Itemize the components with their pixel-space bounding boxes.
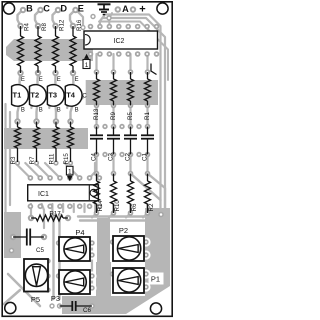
svg-text:T1: T1 — [13, 91, 22, 100]
svg-text:R13: R13 — [93, 108, 100, 120]
svg-text:R17: R17 — [49, 211, 61, 218]
svg-text:C4: C4 — [91, 153, 98, 161]
svg-text:R11: R11 — [49, 153, 56, 164]
svg-text:P2: P2 — [119, 226, 128, 235]
svg-text:C6: C6 — [83, 307, 91, 314]
svg-text:E: E — [57, 77, 61, 83]
svg-text:T3: T3 — [48, 91, 57, 100]
svg-text:C2: C2 — [125, 153, 132, 161]
svg-text:1: 1 — [85, 62, 89, 69]
svg-text:+: + — [139, 4, 145, 16]
svg-text:R4: R4 — [24, 23, 31, 31]
svg-text:R16: R16 — [76, 19, 83, 31]
svg-text:R9: R9 — [110, 112, 117, 120]
svg-text:B: B — [39, 108, 43, 114]
svg-text:R10: R10 — [114, 200, 121, 212]
svg-text:R6: R6 — [131, 203, 138, 211]
svg-text:P1: P1 — [151, 275, 160, 284]
svg-text:R12: R12 — [59, 19, 66, 31]
svg-text:C1: C1 — [142, 153, 149, 161]
svg-text:C: C — [43, 4, 50, 14]
svg-text:B: B — [75, 108, 79, 114]
svg-text:P5: P5 — [31, 295, 40, 304]
svg-text:P4: P4 — [75, 228, 84, 237]
svg-text:E: E — [78, 4, 84, 14]
svg-text:B: B — [57, 108, 61, 114]
svg-text:R1: R1 — [144, 112, 151, 120]
svg-text:C: C — [82, 94, 87, 100]
svg-text:E: E — [21, 77, 25, 83]
svg-text:E: E — [39, 77, 43, 83]
svg-text:IC2: IC2 — [114, 38, 125, 45]
svg-text:P3: P3 — [51, 294, 60, 303]
svg-text:R14: R14 — [97, 200, 104, 212]
svg-text:R2: R2 — [148, 203, 155, 211]
svg-text:A: A — [122, 4, 129, 14]
svg-text:C3: C3 — [108, 153, 115, 161]
svg-text:B: B — [26, 4, 33, 14]
svg-text:R7: R7 — [29, 156, 36, 164]
svg-text:1: 1 — [68, 168, 72, 175]
svg-text:R8: R8 — [41, 23, 48, 31]
svg-text:T2: T2 — [30, 91, 39, 100]
svg-text:IC1: IC1 — [38, 191, 49, 198]
svg-text:R5: R5 — [127, 112, 134, 120]
svg-text:D: D — [60, 4, 67, 14]
svg-text:E: E — [75, 77, 79, 83]
svg-text:R3: R3 — [10, 156, 17, 164]
svg-text:T4: T4 — [66, 91, 76, 100]
svg-text:C5: C5 — [36, 247, 44, 254]
svg-text:B: B — [21, 108, 25, 114]
svg-text:R15: R15 — [63, 153, 70, 165]
